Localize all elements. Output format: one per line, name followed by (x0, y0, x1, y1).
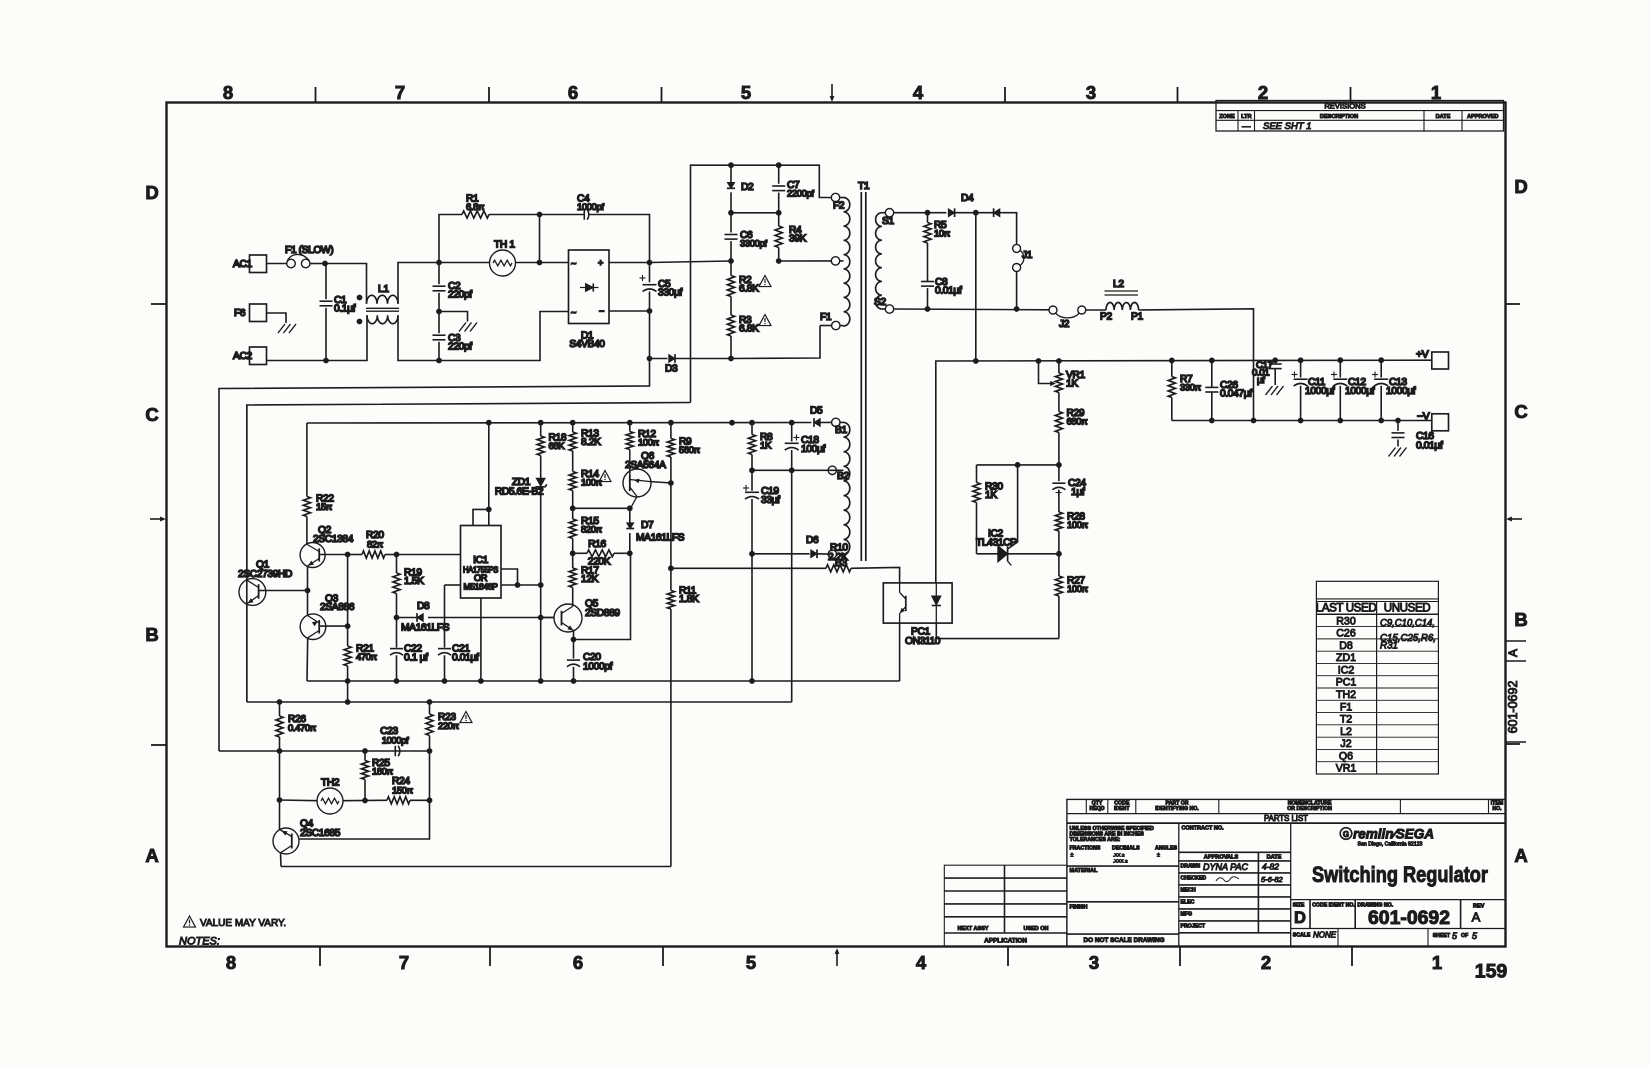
transistor Q4 2SC1685 (273, 828, 299, 854)
svg-text:2SD889: 2SD889 (585, 608, 620, 619)
svg-text:1000pf: 1000pf (577, 201, 604, 212)
svg-text:1.5K: 1.5K (404, 576, 424, 587)
svg-text:J2: J2 (1059, 319, 1070, 330)
svg-text:MA161LFS: MA161LFS (401, 623, 450, 634)
transformer T1 core (860, 192, 862, 561)
wire RAIL-C feedback rail (247, 701, 792, 703)
svg-text:LAST USED: LAST USED (1316, 602, 1377, 615)
junction dot R24/R23 node (427, 797, 433, 803)
svg-text:~: ~ (571, 308, 576, 318)
svg-text:15π: 15π (316, 501, 333, 512)
svg-text:TOLERANCES ARE:: TOLERANCES ARE: (1070, 837, 1121, 843)
svg-text:J1: J1 (1022, 250, 1033, 261)
svg-text:SHEET: SHEET (1433, 933, 1451, 939)
resistor R19 1.5K (396, 555, 398, 574)
capacitor C11 1000uf (1300, 360, 1302, 377)
capacitor C6 3300pf (730, 213, 732, 233)
svg-text:ZD1: ZD1 (1336, 652, 1356, 664)
svg-text:680π: 680π (1067, 416, 1089, 427)
drawing border frame (167, 103, 1506, 947)
wire bases vertical (347, 555, 349, 627)
svg-text:D8: D8 (417, 601, 430, 612)
svg-text:0.470π: 0.470π (288, 722, 317, 733)
wire Q2 emitter / Q3 emitter junction (307, 566, 309, 615)
capacitor C3 220pf (438, 312, 440, 334)
resistor R30 1K (976, 465, 978, 483)
svg-text:NO.: NO. (1492, 806, 1502, 812)
junction dot Q1 collector node (305, 588, 311, 594)
junction dot at ZD1 line (538, 582, 544, 588)
wire Q5 collector to R17 (572, 605, 574, 607)
title block outer frame (1067, 799, 1506, 946)
wire top snubber rail (691, 165, 832, 402)
junction dot R28/IC2/R27 node (1056, 551, 1062, 557)
junction dot Q5 emitter at C20 (571, 637, 577, 643)
svg-text:1.8K: 1.8K (679, 594, 699, 605)
svg-text:159: 159 (1475, 961, 1508, 983)
svg-text:2SA564A: 2SA564A (625, 460, 666, 471)
wire Q4 emitter to RAIL-D (280, 853, 283, 867)
junction dot R20/R19 node (394, 552, 400, 558)
wire C18 node to RAIL-C riser (791, 470, 793, 702)
revisions table top right (1216, 101, 1504, 132)
capacitor C23 1000pf (394, 746, 396, 756)
svg-text:DECIMALS: DECIMALS (1112, 846, 1140, 852)
wire C2/C3 node to ground (439, 312, 468, 322)
diode D7 MA161LFS (629, 508, 631, 523)
svg-text:100π: 100π (1067, 583, 1089, 594)
title block tolerance column (1067, 823, 1179, 946)
svg-text:PC1: PC1 (1336, 677, 1357, 689)
svg-text:0.01μf: 0.01μf (452, 653, 479, 664)
phase dot L1 lower (357, 319, 363, 325)
wire AC1 node to L1 upper winding (325, 264, 367, 304)
note: value may vary (184, 916, 196, 927)
svg-text:330μf: 330μf (658, 288, 682, 299)
svg-text:100π: 100π (638, 437, 660, 448)
diode D6 (752, 553, 810, 555)
wire Q1 collector (264, 590, 308, 592)
svg-text:601-0692: 601-0692 (1368, 908, 1450, 929)
ground symbol at C2/C3 (459, 323, 466, 332)
terminal F6 (250, 304, 267, 322)
svg-text:1: 1 (1431, 82, 1441, 103)
svg-text:Switching Regulator: Switching Regulator (1312, 862, 1488, 887)
svg-text:D3: D3 (665, 364, 678, 375)
junction dot sense rail at R26 (277, 748, 283, 754)
wire C19 node to RAIL-B (751, 554, 753, 681)
svg-text:5-6-82: 5-6-82 (1261, 875, 1284, 884)
transistor Q5 2SD889 (554, 604, 582, 632)
parts list header row (1086, 799, 1488, 813)
wire IC1 right pin lower (501, 584, 541, 586)
fuse F1 (SLOW) (287, 259, 296, 268)
svg-text:TH2: TH2 (321, 778, 340, 789)
wire fuse to node (310, 263, 325, 265)
svg-text:1: 1 (1432, 952, 1442, 973)
svg-text:SEE SHT 1: SEE SHT 1 (1263, 121, 1312, 132)
svg-text:7: 7 (399, 952, 409, 973)
svg-text:3: 3 (1086, 82, 1096, 103)
svg-text:820π: 820π (581, 524, 603, 535)
junction dot +V rail at C17 (1272, 357, 1278, 363)
svg-text:NEXT ASSY: NEXT ASSY (958, 926, 989, 932)
svg-text:330π: 330π (1180, 382, 1202, 393)
wire -V output rail (1172, 420, 1432, 422)
terminal AC2 (250, 347, 267, 365)
transformer T1 auxiliary winding B1-B2-B3 (832, 418, 840, 426)
alignment arrow right border (1508, 518, 1522, 520)
svg-text:D8: D8 (1339, 640, 1353, 652)
junction dots on RAIL-B (345, 678, 351, 684)
wire J1 to S2 rail (1016, 272, 1018, 310)
resistor R18 68K (540, 423, 542, 436)
svg-text:0.01μf: 0.01μf (935, 286, 962, 297)
wire D4 middle segment (955, 212, 1002, 214)
application block next assy / used on (944, 865, 1067, 946)
bridge rectifier D1 S4VB40 (569, 250, 610, 324)
wire R1/C4 node down to main rail (539, 215, 541, 263)
transformer T1 secondary winding S1-S2 (885, 209, 893, 217)
junction dot C19/D6 node (749, 551, 755, 557)
svg-text:2: 2 (1258, 82, 1268, 103)
wire AC2 node to L1 lower winding (326, 315, 367, 360)
wire PC1 LED bottom to R27 return (935, 623, 938, 639)
junction dot S2 rail at J1 (1014, 306, 1020, 312)
svg-text:F2: F2 (833, 201, 845, 212)
capacitor C5 330uf (649, 263, 651, 283)
svg-text:4: 4 (916, 952, 927, 973)
svg-text:NONE: NONE (1313, 931, 1337, 940)
svg-text:±: ± (1157, 853, 1160, 859)
resistor R25 180 ohm (364, 751, 366, 761)
resistor R16 220K (587, 550, 614, 557)
svg-text:IDENTIFYING NO.: IDENTIFYING NO. (1155, 806, 1199, 812)
svg-text:DESCRIPTION: DESCRIPTION (1320, 114, 1358, 120)
wire D3 node to F1 winding (731, 326, 820, 359)
junction dot sense rail at R23 (427, 748, 433, 754)
terminal AC1 (250, 255, 267, 273)
svg-text:CODE IDENT NO.: CODE IDENT NO. (1312, 902, 1355, 908)
svg-text:39K: 39K (789, 234, 807, 245)
resistor R1 6.8 ohm (439, 215, 462, 263)
resistor R24 150 ohm (387, 797, 410, 804)
warning triangle at R2 (759, 276, 771, 287)
junction dot main rail at C5 (647, 260, 653, 266)
svg-text:AC2: AC2 (233, 351, 252, 362)
capacitor C18 100uf (791, 423, 793, 442)
resistor R14 100 ohm (572, 451, 574, 472)
junction dot +V rail at C12 (1337, 357, 1343, 363)
svg-text:2.2K: 2.2K (828, 552, 848, 563)
svg-text:FINISH: FINISH (1070, 904, 1088, 910)
wire Q1 emitter down to RAIL-C (246, 604, 248, 702)
svg-text:ON3110: ON3110 (905, 636, 941, 647)
resistor R22 15 ohm (306, 423, 308, 497)
svg-text:MATERIAL: MATERIAL (1070, 868, 1099, 874)
wire R23 bottom branch to Q4 base (299, 751, 430, 839)
resistor R9 560 ohm (670, 423, 672, 439)
svg-text:D6: D6 (806, 535, 819, 546)
svg-text:A: A (1506, 649, 1520, 657)
resistor R15 820 ohm (572, 508, 574, 519)
svg-text:RD5.6E-B2: RD5.6E-B2 (495, 487, 544, 498)
wire Q2 base to bases node (319, 554, 347, 556)
capacitor C12 1000uf (1339, 360, 1341, 377)
svg-text:T2: T2 (1340, 714, 1352, 726)
svg-text:AC1: AC1 (233, 259, 252, 270)
svg-text:10π: 10π (934, 228, 951, 239)
wire J2 to L2 (1086, 309, 1106, 311)
svg-text:M51848P: M51848P (464, 582, 499, 592)
wire RAIL-B control common (307, 680, 900, 682)
wire Q1 base (259, 590, 264, 592)
svg-text:4-82: 4-82 (1262, 862, 1279, 872)
inductor L1 common-mode choke (367, 295, 399, 304)
wire AC1 to fuse (267, 263, 287, 265)
junction dot at IC2 cathode branch (1015, 462, 1021, 468)
diode D3 (650, 358, 668, 360)
svg-text:2: 2 (1261, 952, 1271, 973)
right margin revision letter A strip (1506, 640, 1527, 642)
svg-text:8.2K: 8.2K (581, 437, 601, 448)
svg-text:D2: D2 (741, 182, 754, 193)
svg-text:C26: C26 (1336, 628, 1356, 640)
svg-text:SCALE: SCALE (1293, 933, 1311, 939)
capacitor C13 1000uf (1380, 360, 1382, 377)
warning triangle at R3 (759, 315, 771, 326)
junction dot AC1 line at C1 (322, 261, 328, 267)
svg-text:8: 8 (226, 952, 236, 973)
title block company logo Gremlin/SEGA (1340, 828, 1352, 840)
svg-text:0.1μf: 0.1μf (334, 304, 356, 315)
resistor R10 2.2K (671, 567, 826, 569)
svg-text:D5: D5 (810, 406, 823, 417)
svg-text:2SA886: 2SA886 (320, 602, 355, 613)
svg-text:D: D (145, 182, 158, 203)
svg-text:OF: OF (1461, 933, 1468, 939)
svg-text:S2: S2 (874, 297, 886, 308)
svg-text:G: G (1343, 830, 1349, 839)
svg-text:R31: R31 (1380, 641, 1398, 652)
resistor R28 100 ohm (1055, 512, 1062, 531)
svg-text:6: 6 (568, 82, 578, 103)
svg-text:ANGLES: ANGLES (1155, 846, 1178, 852)
capacitor C1 0.1uf (325, 264, 327, 300)
svg-text:A: A (145, 845, 158, 866)
resistor R20 82 ohm (362, 551, 385, 558)
capacitor C19 33uf (751, 470, 753, 491)
svg-text:1000μf: 1000μf (1305, 386, 1335, 397)
junction dot snubber rail at R3 bottom (728, 356, 734, 362)
wire IC1 top pin jog (473, 509, 489, 525)
transistor Q1 2SC2739HD (239, 579, 266, 606)
wire bridge + output to C5 node (609, 262, 650, 264)
svg-text:F1 (SLOW): F1 (SLOW) (285, 245, 333, 256)
diode D8 MA161LFS (397, 617, 417, 619)
terminal -V (1432, 414, 1449, 431)
wire +V output rail (936, 360, 1432, 583)
svg-text:L2: L2 (1113, 279, 1124, 290)
svg-text:6: 6 (573, 952, 583, 973)
wire C5/D3 node to primary return rail (219, 359, 650, 752)
junction dot main rail at C2 (436, 260, 442, 266)
svg-text:1000μf: 1000μf (1345, 386, 1375, 397)
svg-text:VR1: VR1 (1336, 763, 1357, 775)
junction dot main rail at R4 (776, 258, 782, 264)
svg-text:ELEC: ELEC (1181, 900, 1195, 906)
svg-text:C: C (1514, 401, 1527, 422)
junction dot C18 bottom node (789, 467, 795, 473)
junction dot R19/D8/C22 node (394, 615, 400, 621)
resistor R12 100 ohm (629, 423, 631, 432)
junction dot bases node top (345, 552, 351, 558)
svg-text:L1: L1 (378, 284, 389, 295)
junction dot +V rail at C11 (1298, 357, 1304, 363)
wire sense rail y=751 (219, 750, 430, 752)
svg-text:L2: L2 (1340, 726, 1352, 738)
junction dot R29/C24/R30 node (1056, 462, 1062, 468)
wire F6 to ground (267, 313, 287, 323)
wire R26 to TH2 line (279, 751, 281, 800)
svg-text:VALUE MAY VARY.: VALUE MAY VARY. (200, 918, 286, 929)
diode D4 second (994, 209, 1000, 217)
resistor R7 330 ohm (1171, 360, 1173, 376)
svg-text:220π: 220π (438, 720, 460, 731)
title block scale row (1337, 929, 1339, 947)
grid tick marks left border (151, 303, 167, 305)
junction dot main rail at R1/C4 branch (537, 260, 543, 266)
svg-text:2200pf: 2200pf (787, 188, 814, 199)
last used / unused parts table (1316, 581, 1438, 774)
warning triangle at R14 (599, 471, 611, 482)
svg-text:—: — (1242, 121, 1251, 131)
wire snubber rail y=402 to RAIL-C riser (247, 403, 691, 703)
svg-text:D7: D7 (641, 520, 654, 531)
svg-text:MA161LFS: MA161LFS (636, 533, 685, 544)
svg-text:0.1 μf: 0.1 μf (404, 653, 428, 664)
svg-text:APPROVALS: APPROVALS (1204, 855, 1239, 861)
wire R30/IC2 branch (977, 464, 1059, 466)
wire IC1 bottom pin to RAIL-B (480, 598, 482, 681)
svg-text:FRACTIONS: FRACTIONS (1070, 846, 1101, 852)
wire AC2 to node (267, 360, 327, 362)
svg-text:CONTRACT NO.: CONTRACT NO. (1182, 826, 1225, 832)
junction dot D3 anode node (647, 356, 653, 362)
wire C21 to IC1 left pin (445, 584, 461, 586)
svg-text:D: D (1514, 176, 1527, 197)
junction dot bases node bottom (345, 623, 351, 629)
junction dot S2 rail at C8 (925, 306, 931, 312)
junction dot IC1 top pin (486, 507, 492, 513)
svg-text:A: A (1472, 910, 1481, 925)
svg-text:DYNA PAC: DYNA PAC (1203, 862, 1249, 872)
thermistor TH1 (490, 250, 516, 276)
wire Q3 collector to RAIL-B (306, 638, 309, 681)
svg-text:IC2: IC2 (1338, 664, 1355, 676)
svg-text:5: 5 (741, 82, 751, 103)
svg-text:USED ON: USED ON (1023, 926, 1048, 932)
resistor R29 680 ohm (1058, 393, 1060, 412)
wire IC2 to R27 node (1008, 553, 1059, 555)
wire IC1 feed from RAIL-A (488, 423, 490, 526)
svg-text:APPLICATION: APPLICATION (984, 938, 1027, 945)
svg-text:P1: P1 (1131, 312, 1143, 323)
wire control supply rail RAIL-A (307, 422, 812, 425)
svg-text:A: A (1514, 845, 1527, 866)
wire R11 to Q4 emitter rail (281, 866, 671, 868)
wire bridge - output to C5 (609, 310, 650, 312)
svg-text:470π: 470π (356, 651, 378, 662)
svg-text:PROJECT: PROJECT (1181, 924, 1206, 930)
alignment arrow top border (831, 84, 833, 100)
wire L1 lower winding to lower rail (398, 315, 439, 360)
resistor R3 6.8K (730, 297, 732, 316)
svg-text:−: − (599, 306, 604, 316)
capacitor C22 0.1uf (396, 618, 398, 648)
svg-text:D: D (1294, 909, 1306, 927)
wire TH2 line (280, 799, 318, 802)
svg-text:PARTS LIST: PARTS LIST (1264, 814, 1308, 823)
grid tick marks top border (315, 87, 317, 103)
svg-text:S1: S1 (882, 216, 894, 227)
svg-text:180π: 180π (372, 766, 394, 777)
resistor R17 12K (572, 553, 574, 568)
svg-text:DRAWN: DRAWN (1181, 864, 1201, 870)
svg-text:12K: 12K (581, 574, 599, 585)
svg-text:1000pf: 1000pf (382, 735, 409, 746)
svg-text:−V: −V (1417, 412, 1430, 423)
svg-text:SIZE: SIZE (1293, 902, 1305, 908)
svg-text:1K: 1K (760, 441, 772, 452)
svg-text:220pf: 220pf (448, 342, 472, 353)
svg-text:B2: B2 (837, 471, 849, 482)
resistor R5 10 ohm (927, 213, 929, 223)
svg-text:San Diego, California 92123: San Diego, California 92123 (1358, 842, 1423, 848)
junction dot R16/D7 node (627, 550, 633, 556)
wire D2 to C7 node (731, 212, 779, 214)
svg-text:33μf: 33μf (761, 495, 780, 506)
svg-text:T1: T1 (858, 181, 870, 192)
junction dot D2/C6 node (728, 210, 734, 216)
phase dot L1 upper (357, 295, 363, 301)
inductor L2 (1106, 302, 1139, 310)
svg-text:S4VB40: S4VB40 (569, 339, 605, 350)
junction dot R8/C19 node (749, 467, 755, 473)
svg-text:DATE: DATE (1436, 114, 1451, 120)
resistor R2 6.8K (730, 261, 732, 276)
junction dot -V rail at C16 (1395, 418, 1401, 424)
wire main rail to TH1 (439, 262, 490, 264)
wire L1 upper winding to main rail (398, 263, 439, 304)
wire Q1 collector up to sense rail (246, 405, 248, 580)
svg-text:UNUSED: UNUSED (1384, 602, 1431, 615)
svg-text:560π: 560π (679, 444, 701, 455)
title block number row (1291, 900, 1506, 929)
svg-text:+: + (598, 258, 603, 268)
transistor Q3 2SA886 (300, 614, 326, 640)
svg-text:4: 4 (913, 82, 924, 103)
svg-text:+V: +V (1416, 350, 1429, 361)
capacitor C8 0.01uf (927, 243, 929, 282)
junction dot -V rail at C13 (1378, 418, 1384, 424)
junction dot -V rail at C12 (1337, 418, 1343, 424)
svg-text:ZONE: ZONE (1219, 114, 1235, 120)
junction dot R25/R24 node (362, 798, 368, 804)
transistor Q6 2SA564A (623, 469, 651, 497)
svg-text:B1: B1 (835, 425, 847, 436)
junction dot R15/R16/R17 node (570, 550, 576, 556)
